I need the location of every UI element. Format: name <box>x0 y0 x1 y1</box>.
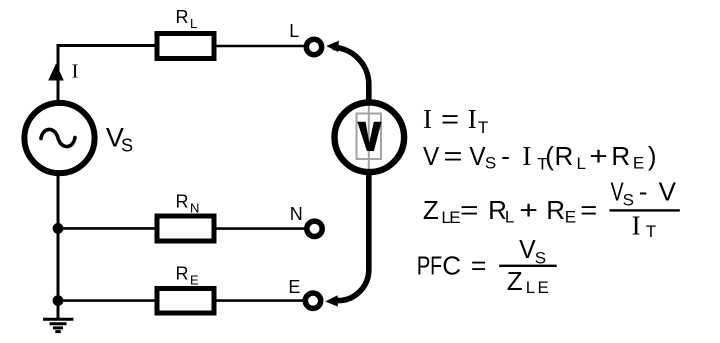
wire: source bottom to ground <box>57 176 60 319</box>
svg-text:+: + <box>519 195 538 225</box>
junction dot E row <box>53 295 64 306</box>
wire: R_L to L terminal <box>216 45 304 48</box>
svg-text:R: R <box>176 264 189 284</box>
voltmeter gray resistor symbol <box>357 101 382 174</box>
junction dot N row <box>53 223 64 234</box>
svg-text:E: E <box>288 277 300 297</box>
svg-text:N: N <box>190 200 199 215</box>
svg-text:V: V <box>659 177 677 207</box>
voltage source V_S <box>24 103 94 173</box>
svg-text:R: R <box>176 192 189 212</box>
svg-text:S: S <box>485 153 496 172</box>
measuring lead arrow to L <box>333 47 369 102</box>
svg-text:=: = <box>580 195 597 225</box>
svg-text:R: R <box>176 7 189 27</box>
wire: junction to R_N <box>58 227 155 230</box>
terminal L <box>306 39 321 54</box>
svg-text:C: C <box>442 250 461 280</box>
svg-text:L: L <box>577 154 586 173</box>
svg-text:P: P <box>417 250 431 280</box>
svg-text:E: E <box>565 208 576 227</box>
current arrow I <box>48 64 64 81</box>
wire: R_N to N terminal <box>216 227 305 230</box>
svg-text:V: V <box>469 141 486 171</box>
svg-text:-: - <box>501 141 510 171</box>
svg-text:L: L <box>505 208 514 227</box>
svg-text:S: S <box>121 135 133 155</box>
terminal E <box>305 293 320 308</box>
svg-text:Z: Z <box>423 195 439 225</box>
resistor R2 R_N <box>157 216 214 241</box>
svg-text:Z: Z <box>507 266 523 296</box>
svg-text:L: L <box>190 16 197 31</box>
svg-text:I: I <box>632 211 641 241</box>
svg-text:I: I <box>468 104 477 134</box>
svg-text:=: = <box>471 250 487 280</box>
wire: junction to R_E <box>58 299 155 302</box>
svg-text:I: I <box>423 104 432 134</box>
svg-text:F: F <box>430 250 442 280</box>
svg-text:-: - <box>639 177 648 207</box>
svg-text:S: S <box>623 190 634 209</box>
resistor R1 R_L <box>157 34 214 59</box>
svg-text:E: E <box>449 208 460 227</box>
wire: R_E to E terminal <box>216 299 303 302</box>
terminal N <box>307 221 322 236</box>
svg-text:=: = <box>460 195 479 225</box>
svg-text:T: T <box>478 118 488 137</box>
wire: top horizontal corner to R_L <box>57 44 156 47</box>
svg-text:=: = <box>444 141 463 171</box>
svg-text:I: I <box>522 141 531 171</box>
svg-text:N: N <box>290 204 303 224</box>
eq4 fraction bar <box>499 265 557 267</box>
svg-text:E: E <box>190 272 199 287</box>
svg-text:R: R <box>546 195 565 225</box>
svg-text:=: = <box>441 104 459 134</box>
svg-text:): ) <box>648 141 657 171</box>
svg-text:T: T <box>646 222 656 241</box>
svg-text:E: E <box>633 153 644 172</box>
svg-text:V: V <box>423 141 440 171</box>
svg-text:R: R <box>555 141 574 171</box>
svg-text:V: V <box>519 234 536 264</box>
ground <box>43 319 74 331</box>
svg-text:R: R <box>611 141 630 171</box>
resistor R3 R_E <box>157 289 214 314</box>
sine wave <box>41 129 75 146</box>
voltmeter circle U1 <box>335 103 405 173</box>
svg-text:L: L <box>289 21 299 41</box>
svg-text:(: ( <box>545 141 554 171</box>
svg-text:+: + <box>589 141 608 171</box>
svg-text:I: I <box>72 60 79 82</box>
svg-text:E: E <box>538 278 549 297</box>
svg-text:L: L <box>526 278 535 297</box>
measuring lead arrow to E <box>338 173 369 301</box>
wire: corner to source top <box>57 46 60 101</box>
svg-text:S: S <box>535 248 546 267</box>
voltmeter letter V <box>357 122 381 151</box>
eq3 fraction bar <box>610 209 680 211</box>
